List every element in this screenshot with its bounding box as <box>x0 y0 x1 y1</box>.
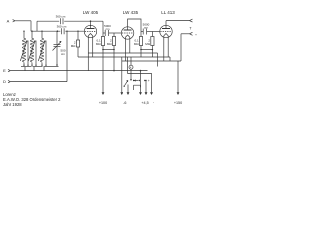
wire rail y57 corner down <box>169 57 171 61</box>
wire rail y53 corner down <box>157 53 159 67</box>
lamp/jack J1 <box>129 57 133 80</box>
socket strip bars <box>21 66 59 68</box>
wire earth rail <box>11 70 148 72</box>
junction dot coil stub L3 <box>41 31 42 32</box>
resistor R4 2 Mohm grid leak V3 <box>145 32 154 58</box>
wire V2 filament left down <box>124 39 126 61</box>
svg-text:MΩ: MΩ <box>71 44 76 48</box>
junction dot R1 bottom <box>102 49 104 51</box>
svg-text:MΩ: MΩ <box>107 42 112 46</box>
terminal plug +4,5 a <box>139 91 141 93</box>
node E (earth terminal) <box>3 68 10 73</box>
wire speaker bottom line <box>181 33 190 35</box>
junction dot tuning branch <box>57 30 59 32</box>
wire V2 anode lead up and over to C4 <box>128 19 141 32</box>
wire rail y53 <box>88 52 157 54</box>
svg-text:Jahr 1928: Jahr 1928 <box>3 102 22 107</box>
junction dot above V1 <box>90 20 92 22</box>
wire anode node to C3 <box>103 32 105 34</box>
resistor R2 2 Mohm grid leak V2 <box>107 33 116 71</box>
wire corner x103 down to coupling cap <box>102 21 104 33</box>
wire V2 filament right down <box>129 39 131 53</box>
svg-text:+: + <box>195 32 197 36</box>
svg-text:+100: +100 <box>99 101 107 105</box>
wire V3 filament right down <box>167 37 169 57</box>
resistor R5 grid leak of V1 <box>71 31 80 57</box>
wire lower net y31 right of C2 to V1 grid <box>65 30 84 32</box>
junction dot coil stub L2 <box>31 31 32 32</box>
wire lower net y31 <box>31 30 60 32</box>
wire terminal lead -6 b <box>127 85 129 93</box>
junction dot switch contact x146 <box>145 80 146 81</box>
svg-text:cm: cm <box>106 27 111 31</box>
terminal plug +4,5 c <box>145 91 147 93</box>
svg-text:LL 413: LL 413 <box>161 10 175 15</box>
triode V1 LW 405 <box>84 25 96 37</box>
terminal plug -6 b <box>127 91 129 93</box>
wire antenna A to junction <box>15 20 31 22</box>
terminal plug +150 <box>174 92 182 104</box>
wire C4 to V3 grid <box>147 31 160 33</box>
junction dot R3 bottom <box>140 49 142 51</box>
coil tap plug leads into socket strip <box>23 62 58 66</box>
wire anode node V2 to C4 <box>141 31 143 33</box>
coil L2 with slider and tap arrow <box>28 38 36 62</box>
variable capacitor C5 500cm tuning <box>53 31 66 65</box>
svg-text:+4,5: +4,5 <box>141 101 148 105</box>
speaker terminal top <box>190 19 193 22</box>
wire coil L3 top lead <box>41 31 43 38</box>
junction dot R2 on earth rail <box>113 70 115 72</box>
wire rail y61 <box>122 60 181 62</box>
wire V3 filament left down <box>163 37 165 61</box>
svg-text:cm: cm <box>144 25 149 29</box>
wire terminal lead +4,5 b <box>140 71 142 93</box>
svg-text:360 cm: 360 cm <box>57 25 67 29</box>
capacitor C4 coupling 5000cm <box>143 22 150 34</box>
capacitor C3 coupling 5000cm <box>104 24 111 36</box>
wire link R3-R4 bottoms <box>141 49 152 51</box>
wire C3 to V2 grid <box>109 32 122 34</box>
wire link over switch <box>128 74 152 93</box>
wire link R1-R2 bottoms <box>103 49 114 51</box>
svg-text:T: T <box>189 26 192 30</box>
svg-text:-6: -6 <box>123 101 126 105</box>
junction dot R2 bottom <box>113 49 115 51</box>
wire top net y21 right of C1 <box>64 20 103 22</box>
switch S1 contact right <box>133 70 150 83</box>
wire vertical x31 down to lower net <box>30 21 32 31</box>
svg-text:E: E <box>3 68 6 73</box>
svg-text:360 cm: 360 cm <box>56 14 66 18</box>
terminal plug -6 a <box>121 91 123 93</box>
triode V2 LW 435 <box>121 27 133 39</box>
svg-text:MΩ: MΩ <box>96 42 101 46</box>
junction dot R4 bottom <box>152 49 154 51</box>
node A (antenna terminal) <box>7 18 15 23</box>
wire speaker top line <box>166 20 190 22</box>
node D (terminal) <box>3 79 10 84</box>
capacitor C2 360cm <box>57 25 67 35</box>
wire terminal lead +4,5 b2 <box>145 81 147 93</box>
terminal plug +100 <box>99 92 107 104</box>
svg-text:-: - <box>153 100 155 104</box>
capacitor C1 360cm <box>56 14 66 24</box>
wire socket strip stubs to earth rail <box>25 67 44 71</box>
terminal plug +4,5 b <box>150 91 152 93</box>
svg-text:+: + <box>148 79 150 83</box>
junction dot grid leak <box>77 31 78 32</box>
wire rail y57 <box>78 56 170 58</box>
svg-text:D: D <box>3 79 6 84</box>
triode V3 LL 413 output <box>160 25 172 37</box>
svg-text:LW 435: LW 435 <box>123 10 139 15</box>
wire terminal lead -6 a <box>121 57 123 93</box>
wire coil L1 top lead <box>23 31 25 38</box>
switch S1 contact left <box>124 81 128 87</box>
junction dot x67 <box>66 31 67 32</box>
wire V1 filament left down to earth rail <box>87 37 89 70</box>
wire vertical x127.5 <box>127 57 129 74</box>
svg-text:+150: +150 <box>174 101 182 105</box>
wire D rail <box>11 81 67 83</box>
wire terminal lead +150 <box>177 61 179 93</box>
wire vertical x181 speaker return <box>180 34 182 61</box>
svg-text:A: A <box>7 18 10 23</box>
coil L3 with slider and tap arrow <box>38 38 46 62</box>
svg-text:MΩ: MΩ <box>145 42 150 46</box>
resistor R1 0,1 Mohm anode load V1 <box>96 33 105 93</box>
svg-text:MΩ: MΩ <box>134 42 139 46</box>
wire anode lead V1 <box>90 21 92 26</box>
wire top net y21 left of C1 <box>37 20 59 22</box>
resistor R3 0,1 Mohm anode load V2 <box>134 32 143 58</box>
wire coil L2 top lead <box>31 31 33 38</box>
svg-text:cm: cm <box>61 52 66 56</box>
coil L1 with slider and tap arrow <box>20 38 28 62</box>
wire V3 anode lead up to speaker line <box>165 21 167 26</box>
wire vertical x37 <box>36 21 38 31</box>
speaker terminal bottom <box>190 32 193 35</box>
svg-text:LW 405: LW 405 <box>83 10 99 15</box>
junction dot coil stub L1 <box>23 31 24 32</box>
battery link staple <box>134 85 141 90</box>
wire V1 filament right down to rail y57 <box>92 37 94 57</box>
wire vertical x67 from D rail to grid net <box>66 31 68 81</box>
